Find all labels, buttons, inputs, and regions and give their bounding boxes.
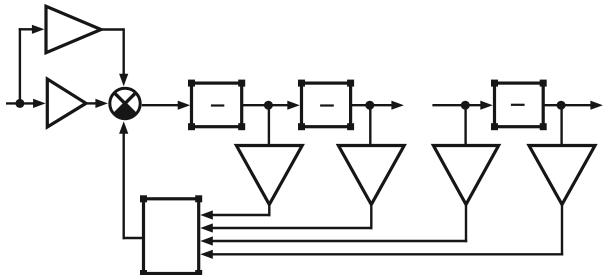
arrow into DAC input 1 xyxy=(200,210,213,219)
arrow into summer top xyxy=(119,74,128,87)
wire B2 feedback horizontal xyxy=(211,227,372,229)
integrator U2 xyxy=(298,80,354,131)
wire integrator 1 to integrator 2 xyxy=(242,104,289,106)
amplifier B3 (feedback coefficient, down) xyxy=(433,146,498,205)
wire tap N2 down xyxy=(369,105,371,147)
node N3 xyxy=(461,101,470,110)
summing junction S1 xyxy=(110,88,140,118)
wire B2 output down xyxy=(370,203,372,229)
arrow continuation out xyxy=(391,101,404,110)
arrow into integrator 1 xyxy=(178,101,191,110)
arrow into DAC input 3 xyxy=(200,236,213,245)
amplifier B2 (feedback coefficient, down) xyxy=(338,146,404,205)
arrow into integrator 3 xyxy=(480,101,493,110)
wire B3 feedback horizontal xyxy=(211,240,467,242)
wire integrator 2 output xyxy=(351,104,393,106)
wire B4 feedback horizontal xyxy=(211,253,563,255)
wire B4 output down xyxy=(561,203,563,256)
node N4 xyxy=(557,101,566,110)
wire tap N3 down xyxy=(464,105,466,147)
wire A1 output right xyxy=(101,28,124,30)
node N2 xyxy=(365,101,374,110)
arrow into amplifier A2 xyxy=(33,99,46,108)
wire input stub xyxy=(6,102,35,104)
integrator U3 xyxy=(491,80,547,131)
arrow into summer left xyxy=(95,99,108,108)
wire top branch xyxy=(19,28,34,30)
wire branch up xyxy=(19,28,21,103)
wire continuation in xyxy=(432,104,481,106)
arrow into DAC input 2 xyxy=(200,223,213,232)
wire B3 output down xyxy=(465,203,467,242)
arrow into DAC input 4 xyxy=(200,250,213,259)
arrow output xyxy=(590,101,603,110)
node input xyxy=(15,99,24,108)
arrow into integrator 2 xyxy=(287,101,300,110)
wire summer to integrator 1 xyxy=(142,104,179,106)
arrow into summer bottom (feedback) xyxy=(119,121,128,134)
amplifier B4 (feedback coefficient, down) xyxy=(529,146,595,205)
wire B1 output down xyxy=(268,203,270,216)
wire A2 output xyxy=(86,102,97,104)
amplifier A1 (feedforward gain, top) xyxy=(46,6,101,52)
wire feedback horizontal from DAC xyxy=(123,237,144,239)
wire A1 output down xyxy=(122,28,124,75)
arrow into amplifier A1 xyxy=(32,25,45,34)
DAC U4 (feedback logic box) xyxy=(140,195,202,275)
node N1 xyxy=(264,101,273,110)
wire B1 feedback horizontal xyxy=(211,214,270,216)
wire tap N1 down xyxy=(268,105,270,147)
wire feedback vertical to summer xyxy=(122,132,124,239)
wire tap N4 down xyxy=(560,105,562,147)
amplifier A2 (input gain) xyxy=(47,79,86,127)
amplifier B1 (feedback coefficient, down) xyxy=(236,146,302,205)
wire integrator 3 output xyxy=(543,104,592,106)
integrator U1 xyxy=(188,80,245,131)
